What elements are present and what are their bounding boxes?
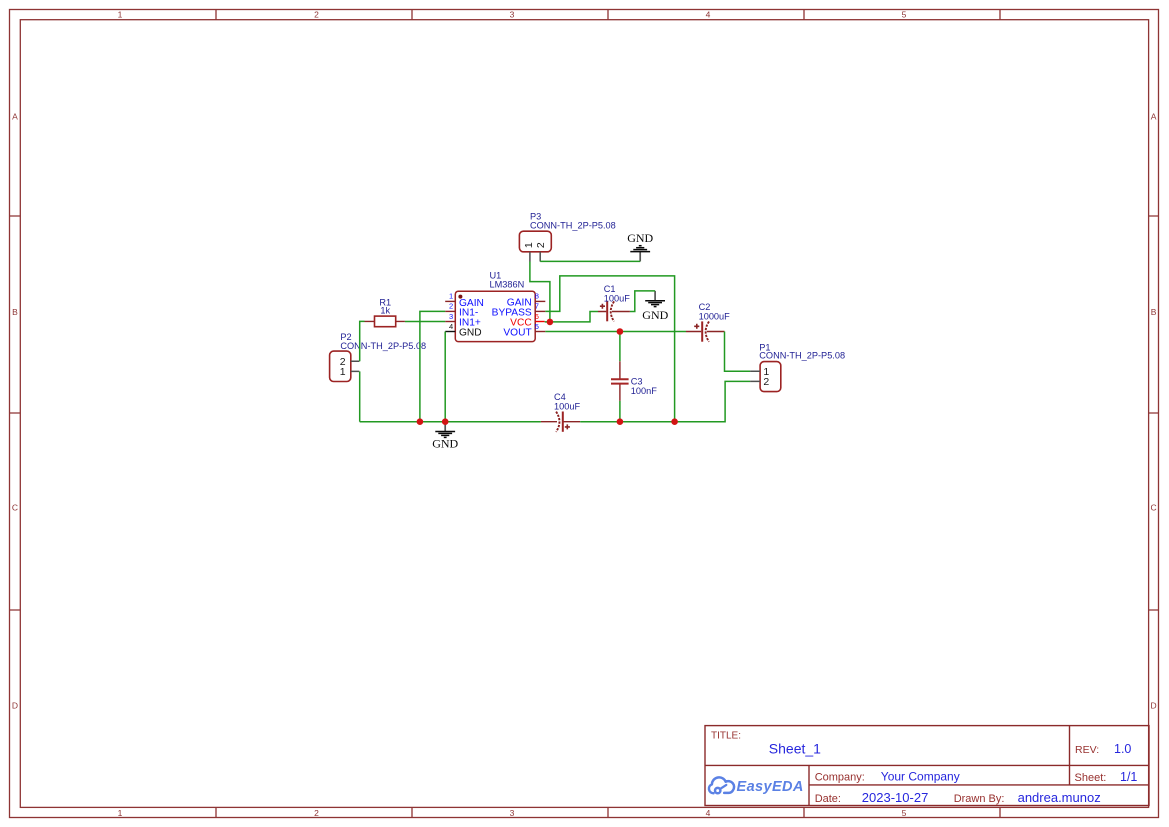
svg-text:7: 7 [535, 302, 539, 311]
U1 pin 2 (IN1-) [445, 302, 478, 319]
svg-text:2: 2 [449, 302, 453, 311]
wire ground bus left segment [360, 421, 541, 423]
wire VCC junction to C1 [545, 312, 598, 322]
svg-text:CONN-TH_2P-P5.08: CONN-TH_2P-P5.08 [530, 220, 616, 230]
svg-text:CONN-TH_2P-P5.08: CONN-TH_2P-P5.08 [759, 350, 845, 360]
svg-text:C: C [1151, 503, 1157, 513]
svg-text:4: 4 [706, 808, 711, 818]
wire C3 bottom to bus [619, 401, 621, 422]
svg-text:LM386N: LM386N [490, 280, 525, 290]
ground GND (middle, near C1) [642, 291, 668, 322]
svg-text:B: B [12, 307, 18, 317]
svg-text:Sheet:: Sheet: [1075, 772, 1107, 784]
svg-text:TITLE:: TITLE: [711, 731, 741, 742]
svg-text:100uF: 100uF [604, 293, 630, 303]
ground GND (top, near P3) [627, 231, 653, 262]
wire U1 pin4 (GND) down to bus [444, 332, 446, 422]
wire R1 to U1 pin3 (IN1+) [405, 321, 445, 323]
junction bus / BYPASS wire [671, 418, 678, 425]
svg-text:3: 3 [510, 9, 515, 19]
U1 pin 7 (BYPASS) [492, 302, 546, 319]
svg-text:C: C [12, 503, 18, 513]
svg-text:GND: GND [459, 328, 482, 339]
U1 pin 4 (GND) [445, 322, 481, 339]
wire U1 pin7 (BYPASS) to ground bus [545, 276, 674, 422]
svg-text:2: 2 [535, 242, 547, 248]
connector P2 CONN-TH_2P-P5.08 [330, 332, 427, 382]
svg-text:6: 6 [535, 312, 539, 321]
svg-text:VOUT: VOUT [503, 328, 531, 339]
capacitor C4 100uF [541, 392, 581, 432]
svg-text:A: A [1151, 112, 1157, 122]
svg-text:100uF: 100uF [554, 401, 580, 411]
svg-text:C1: C1 [604, 284, 616, 294]
svg-text:2023-10-27: 2023-10-27 [862, 790, 929, 805]
svg-text:3: 3 [510, 808, 515, 818]
capacitor C2 1000uF [686, 302, 730, 342]
svg-text:A: A [12, 112, 18, 122]
wire P3 pin2 to top GND [540, 260, 640, 262]
svg-text:B: B [1151, 307, 1157, 317]
svg-text:8: 8 [535, 292, 539, 301]
U1 pin 8 (GAIN) [507, 292, 546, 309]
svg-text:GND: GND [627, 231, 653, 245]
svg-text:REV:: REV: [1075, 744, 1099, 756]
svg-text:1/1: 1/1 [1120, 770, 1137, 784]
svg-text:5: 5 [535, 322, 539, 331]
svg-text:Drawn By:: Drawn By: [954, 793, 1005, 805]
svg-text:1: 1 [523, 242, 535, 248]
junction bus / IN1- wire [417, 418, 424, 425]
capacitor C3 100nF [611, 361, 657, 401]
resistor R1 1k [365, 297, 405, 326]
svg-text:GND: GND [642, 308, 668, 322]
svg-text:Your Company: Your Company [881, 770, 960, 784]
wire C2 to P1 pin1 [725, 332, 751, 372]
svg-text:EasyEDA: EasyEDA [737, 779, 804, 795]
U1 pin 3 (IN1+) [445, 312, 481, 329]
connector P1 CONN-TH_2P-P5.08 [750, 343, 845, 392]
svg-text:C2: C2 [699, 302, 711, 312]
svg-text:4: 4 [706, 9, 711, 19]
svg-text:1: 1 [118, 9, 123, 19]
ground GND (bottom, on bus) [432, 422, 458, 451]
svg-text:4: 4 [449, 322, 453, 331]
wire P3 pin1 to U1 pin6 (VCC) [530, 262, 550, 322]
svg-text:D: D [1151, 701, 1157, 711]
wire U1 pin2 (IN1-) down to ground bus [420, 311, 445, 421]
svg-text:Date:: Date: [815, 793, 841, 805]
svg-text:andrea.munoz: andrea.munoz [1018, 790, 1101, 805]
connector P3 CONN-TH_2P-P5.08 [519, 211, 615, 261]
svg-text:1: 1 [118, 808, 123, 818]
svg-text:1k: 1k [380, 306, 390, 316]
svg-text:2: 2 [314, 808, 319, 818]
svg-text:GND: GND [432, 436, 458, 450]
wire C1 to ground (middle GND) [630, 291, 655, 312]
U1 pin 1 (GAIN) [445, 292, 484, 310]
svg-text:5: 5 [902, 808, 907, 818]
svg-text:Sheet_1: Sheet_1 [769, 741, 821, 757]
svg-text:5: 5 [902, 9, 907, 19]
wire P2 pin2 to R1 [360, 321, 365, 361]
U1 pin 5 (VOUT) [503, 322, 545, 339]
svg-text:Company:: Company: [815, 772, 865, 784]
title block [705, 726, 1149, 806]
junction bus / U1 GND wire [442, 418, 449, 425]
capacitor C1 100uF [598, 284, 630, 322]
svg-text:D: D [12, 701, 18, 711]
junction VOUT / C3 [617, 328, 624, 335]
wire C3 top branch [619, 332, 621, 362]
svg-text:1000uF: 1000uF [699, 311, 731, 321]
svg-text:3: 3 [449, 312, 453, 321]
svg-text:2: 2 [763, 376, 769, 388]
U1 pin 6 (VCC) [510, 312, 545, 329]
svg-text:1.0: 1.0 [1114, 742, 1131, 756]
svg-text:2: 2 [314, 9, 319, 19]
svg-text:100nF: 100nF [631, 386, 657, 396]
IC U1 LM386N body [455, 270, 535, 341]
wire ground bus right segment [580, 381, 750, 421]
svg-text:1: 1 [340, 366, 346, 378]
junction at VCC pin6 [547, 319, 554, 326]
wire P2 pin1 down to ground bus [359, 371, 361, 421]
EasyEDA logo [709, 777, 734, 793]
svg-text:CONN-TH_2P-P5.08: CONN-TH_2P-P5.08 [340, 341, 426, 351]
wire U1 pin5 (VOUT) to C2 [545, 331, 686, 333]
junction bus / C3 [617, 418, 624, 425]
svg-text:1: 1 [449, 292, 453, 301]
